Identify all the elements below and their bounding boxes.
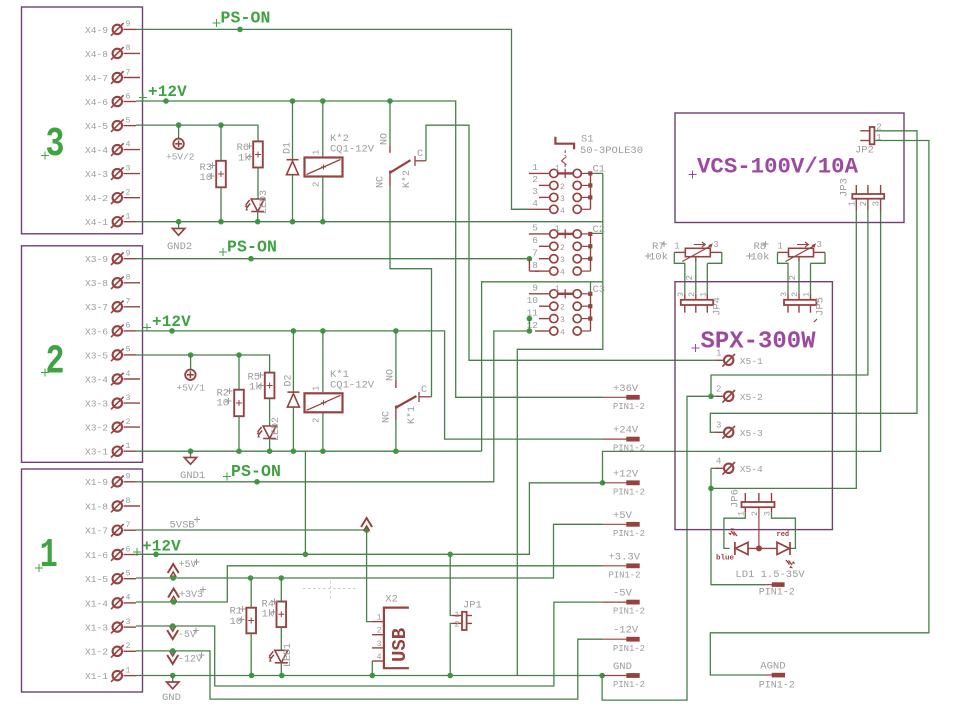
screw terminal X5-4 xyxy=(722,462,735,475)
wire net -12V X1-2 to -12V pin xyxy=(136,639,602,699)
cross R4 value xyxy=(271,609,277,615)
junction -12V arrow xyxy=(170,648,176,654)
junction K*2 pin1 xyxy=(320,98,326,104)
contact circle left S1 C1 row 2 xyxy=(550,181,558,189)
wire D1 bottom xyxy=(292,175,294,222)
wire JP2 pin2 to X5-3 xyxy=(710,131,917,433)
pin stub X3-9 xyxy=(124,258,137,260)
wire 5VSB to USB pin1 xyxy=(367,530,372,622)
contact circle right S1 C1 row 4 xyxy=(573,205,581,213)
svg-text:2: 2 xyxy=(126,642,131,651)
svg-text:+3.3V: +3.3V xyxy=(609,551,641,563)
stub right S1 C1 row 1 xyxy=(582,172,589,174)
junction R3 top xyxy=(218,122,224,128)
svg-text:2: 2 xyxy=(560,244,565,253)
svg-text:3: 3 xyxy=(560,256,565,265)
switch contact arm K*1 xyxy=(395,396,417,409)
ground GND2 xyxy=(172,229,184,236)
svg-text:GND: GND xyxy=(162,692,181,704)
wire R2 top riser xyxy=(238,355,240,390)
svg-text:JP5: JP5 xyxy=(815,297,827,316)
jumper JP1 xyxy=(462,612,467,630)
origin cross SPX xyxy=(692,344,700,352)
svg-text:PIN1-2: PIN1-2 xyxy=(759,588,795,599)
svg-text:PS-ON: PS-ON xyxy=(231,462,281,481)
contact circle right S1 C2 row 7 xyxy=(573,255,581,263)
stub right S1 C3 row 9 xyxy=(582,293,589,295)
screw terminal X4-6 xyxy=(111,95,124,108)
svg-text:2: 2 xyxy=(859,201,869,206)
svg-text:1k: 1k xyxy=(262,609,275,621)
svg-text:JP6: JP6 xyxy=(730,489,742,508)
pin JP3 leg 3 down xyxy=(880,199,882,210)
pad S1 C1 row 3 xyxy=(588,195,592,199)
junction USB pin4 on GND xyxy=(370,673,376,679)
svg-text:PIN1-2: PIN1-2 xyxy=(613,444,645,454)
svg-text:S1: S1 xyxy=(581,134,594,146)
wire JP6 pin3 to LED red xyxy=(772,512,796,548)
origin cross PS-ON1 xyxy=(223,473,231,481)
svg-text:PIN1-2: PIN1-2 xyxy=(613,529,645,539)
pin K*1 C tick xyxy=(418,392,420,402)
screw terminal X3-3 xyxy=(111,397,124,410)
cross R5 xyxy=(258,372,264,378)
contact circle right S1 C3 row 12 xyxy=(573,327,581,335)
contact circle right S1 C3 row 9 xyxy=(573,290,581,298)
cross R2 value xyxy=(226,398,232,404)
wire net X3-5 to R5 xyxy=(136,355,270,372)
pin stub S1 C2 row 8 xyxy=(535,270,549,272)
contact circle right S1 C1 row 3 xyxy=(573,193,581,201)
svg-text:9: 9 xyxy=(532,283,538,294)
pin stub X1-4 xyxy=(124,602,137,604)
trimmer R8 xyxy=(786,243,817,261)
trimmer arrow top R7 xyxy=(694,242,706,247)
svg-text:C3: C3 xyxy=(593,284,606,296)
pin JP5 1 leg down xyxy=(810,305,812,313)
svg-text:8: 8 xyxy=(126,497,131,506)
connector X3 frame xyxy=(22,246,143,462)
svg-text:PIN1-2: PIN1-2 xyxy=(609,570,641,580)
resistor R5 xyxy=(265,373,275,399)
svg-text:X3-6: X3-6 xyxy=(85,326,108,337)
stub right S1 C3 row 12 xyxy=(582,330,591,332)
svg-text:50-3POLE30: 50-3POLE30 xyxy=(580,145,643,157)
svg-text:8: 8 xyxy=(126,274,131,283)
contact circle left S1 C3 row 9 xyxy=(550,290,558,298)
switch S1 actuator symbol xyxy=(555,137,574,150)
svg-text:X4-1: X4-1 xyxy=(85,217,108,228)
pin JP6 1 leg down xyxy=(744,507,746,512)
stub right S1 C2 row 6 xyxy=(582,245,589,247)
pad S1 C2 row 7 xyxy=(588,257,592,261)
origin cross digit 3 xyxy=(41,152,49,160)
cross R7 xyxy=(661,241,667,247)
svg-text:1: 1 xyxy=(454,610,459,620)
pin stub USB pin 1 xyxy=(372,621,384,623)
common bus C2 xyxy=(590,234,592,271)
screw terminal X5-2 xyxy=(722,390,735,403)
svg-text:2: 2 xyxy=(687,292,697,297)
wire GND2 bus down to GND xyxy=(517,173,603,675)
svg-text:6: 6 xyxy=(126,545,131,554)
junction +12V1 label xyxy=(153,552,159,558)
pin JP3 leg 3 up xyxy=(880,185,882,194)
wire R8 pin3 down xyxy=(810,263,812,293)
screw terminal X4-1 xyxy=(111,215,124,228)
svg-text:1: 1 xyxy=(876,133,881,143)
svg-text:2: 2 xyxy=(788,275,798,280)
svg-text:X3-3: X3-3 xyxy=(85,399,108,410)
wire GND to X5-2 xyxy=(602,396,711,700)
svg-text:X1-2: X1-2 xyxy=(85,647,108,658)
pin JP6 3 leg up xyxy=(771,493,773,502)
svg-text:-12V: -12V xyxy=(178,655,202,666)
svg-text:X5-2: X5-2 xyxy=(740,392,763,403)
wire X5-2 pin link xyxy=(711,395,715,397)
pad S1 C1 row 2 xyxy=(588,183,592,187)
junction 5VSB USB xyxy=(364,527,370,533)
svg-text:1: 1 xyxy=(312,386,322,391)
pin stub X4-8 xyxy=(124,52,141,54)
supply pin +5V xyxy=(602,522,639,527)
pad S1 C3 row 11 xyxy=(588,317,592,321)
wire net +5V X1-5 to +5V pin xyxy=(136,524,602,578)
wire JP3 pin1 to X5-4 xyxy=(711,210,856,488)
supply pin GND xyxy=(602,673,639,678)
pin stub USB pin 4 xyxy=(372,660,384,662)
pin JP2 pin1 stub xyxy=(860,140,869,142)
LD1 anode junction xyxy=(756,545,762,551)
junction D1 bottom xyxy=(290,219,296,225)
pin JP3 leg 1 down xyxy=(855,199,857,210)
svg-text:CQ1-12V: CQ1-12V xyxy=(330,380,375,392)
junction K*2 pin2 xyxy=(320,219,326,225)
wire JP3 pin3 stub down xyxy=(880,210,882,214)
svg-text:5: 5 xyxy=(126,116,131,125)
screw terminal X4-5 xyxy=(111,119,124,132)
pin R7 wiper stub xyxy=(695,257,697,261)
pin stub X3-5 xyxy=(124,354,137,356)
pin stub X4-4 xyxy=(124,149,141,151)
supply arrow 5VSB xyxy=(361,518,372,531)
wire net PS-ON1 X1-9 to S1 row12 xyxy=(136,331,529,482)
screw terminal X1-7 xyxy=(111,524,124,537)
pin K*2 C tick xyxy=(414,156,416,166)
svg-text:VCS-100V/10A: VCS-100V/10A xyxy=(697,154,858,180)
connector X4 frame xyxy=(22,7,143,234)
origin cross PS-ON3 xyxy=(213,19,221,27)
stub row8 link xyxy=(529,270,539,272)
svg-text:8: 8 xyxy=(532,260,538,271)
pin R8 wiper stub xyxy=(798,257,800,261)
pin stub X5-1 xyxy=(715,359,723,361)
wire +5V/2 riser xyxy=(178,125,180,138)
svg-text:4: 4 xyxy=(560,329,565,338)
junction +12V3 label xyxy=(163,98,169,104)
svg-text:4: 4 xyxy=(126,140,131,149)
pin R7 3 stub xyxy=(710,251,722,253)
cross -5V xyxy=(193,628,199,634)
junction R3 bottom xyxy=(218,219,224,225)
svg-text:PIN1-2: PIN1-2 xyxy=(613,644,645,654)
pin JP4 2 leg down xyxy=(695,305,697,313)
wire R7 pin3 down xyxy=(706,263,708,293)
svg-text:1k: 1k xyxy=(238,153,251,165)
pin JP6 2 leg down xyxy=(758,507,760,548)
pin stub USB pin 2 xyxy=(372,634,384,636)
wire R8 wiper to JP5 xyxy=(798,261,800,293)
svg-text:3: 3 xyxy=(126,164,131,173)
cross R3 xyxy=(210,163,216,169)
stub right S1 C1 row 4 xyxy=(582,208,591,210)
junction LED2 bottom on GND1 xyxy=(267,448,273,454)
svg-text:C2: C2 xyxy=(593,224,606,236)
svg-text:GND1: GND1 xyxy=(180,470,205,482)
pin stub X1-6 xyxy=(124,554,137,556)
svg-text:+12V: +12V xyxy=(142,538,181,556)
svg-text:K*1: K*1 xyxy=(406,406,418,424)
contact circle left S1 C1 row 3 xyxy=(550,193,558,201)
junction GND symbol on GND xyxy=(170,673,176,679)
junction S1 row12 PS-ON1 xyxy=(527,328,533,334)
supply pin +12V xyxy=(602,480,639,485)
svg-text:PS-ON: PS-ON xyxy=(227,238,277,257)
svg-text:1: 1 xyxy=(778,242,783,252)
pin stub S1 C3 row 9 xyxy=(529,293,549,295)
pad S1 C2 row 6 xyxy=(588,244,592,248)
pin K*2 C stub xyxy=(415,160,426,162)
svg-text:LED3: LED3 xyxy=(259,190,270,214)
svg-text:X1-4: X1-4 xyxy=(85,598,108,609)
svg-text:X4-8: X4-8 xyxy=(85,49,108,60)
wire net PS-ON3 X4-9 to S1 row4 xyxy=(136,29,529,209)
wire LED3 bottom xyxy=(257,212,259,222)
svg-text:2: 2 xyxy=(790,292,800,297)
contact circle left S1 C1 row 4 xyxy=(550,205,558,213)
connector X1 frame xyxy=(22,469,143,692)
wire R8 pin1 to JP5 xyxy=(778,252,789,293)
wire K*2 NO riser xyxy=(389,101,391,146)
wire GND2 stub xyxy=(178,222,180,228)
wire JP2 pin1 to AGND xyxy=(710,141,929,676)
svg-text:1: 1 xyxy=(555,285,560,294)
pin JP4 1 leg up xyxy=(706,293,708,300)
pin stub X4-2 xyxy=(124,197,141,199)
wire USB pin4 to GND xyxy=(371,661,373,676)
pin stub S1 C3 row 11 xyxy=(539,318,549,320)
contact circle left S1 C3 row 10 xyxy=(550,302,558,310)
svg-text:1: 1 xyxy=(126,442,131,451)
contact circle right S1 C3 row 11 xyxy=(573,315,581,323)
supply arrow -5V xyxy=(167,626,178,639)
cross +3V3 xyxy=(200,587,206,593)
contact circle left S1 C2 row 7 xyxy=(550,255,558,263)
screw terminal X3-9 xyxy=(111,252,124,265)
svg-text:2: 2 xyxy=(126,418,131,427)
svg-text:AGND: AGND xyxy=(760,661,785,673)
pin stub X1-9 xyxy=(124,481,137,483)
pin stub X5-3 xyxy=(715,431,723,433)
junction D2 bottom on GND1 xyxy=(291,448,297,454)
svg-text:X3-7: X3-7 xyxy=(85,302,108,313)
svg-text:3: 3 xyxy=(560,316,565,325)
wire R4 top xyxy=(280,578,282,602)
svg-text:-5V: -5V xyxy=(613,588,633,600)
wire GND1 to +12V1 net xyxy=(304,451,306,554)
svg-text:1: 1 xyxy=(126,213,131,222)
pin stub X4-1 xyxy=(124,221,137,223)
pin stub X3-4 xyxy=(124,378,141,380)
pin R8 1 stub xyxy=(778,251,789,253)
wire net +12V2 X3-6 to +24V pin xyxy=(136,331,602,439)
cross R3 value xyxy=(209,173,215,179)
origin cross +12V2 xyxy=(143,324,151,332)
junction PS-ON1 xyxy=(254,479,260,485)
stub right S1 C1 row 3 xyxy=(582,196,589,198)
svg-text:3: 3 xyxy=(779,292,789,297)
supply pin -12V xyxy=(602,637,639,642)
wire JP6 pin1 to LED blue xyxy=(724,512,745,548)
contact circle right S1 C2 row 8 xyxy=(573,267,581,275)
svg-text:4: 4 xyxy=(560,269,565,278)
svg-text:4: 4 xyxy=(560,207,565,216)
svg-text:10k: 10k xyxy=(649,252,668,264)
svg-text:10: 10 xyxy=(200,172,213,184)
pin R8 3 stub xyxy=(814,251,826,253)
common bus C1 xyxy=(590,173,592,209)
screw terminal X3-2 xyxy=(111,421,124,434)
svg-text:NC: NC xyxy=(376,176,387,188)
svg-text:K*2: K*2 xyxy=(401,170,413,188)
svg-text:PS-ON: PS-ON xyxy=(221,9,271,28)
screw terminal X1-6 xyxy=(111,548,124,561)
wire R8 pin3 corner xyxy=(811,252,826,263)
cross R7 value xyxy=(645,253,651,259)
pin JP4 1 leg down xyxy=(706,305,708,313)
svg-text:-12V: -12V xyxy=(613,625,639,637)
svg-text:7: 7 xyxy=(532,248,538,259)
wire R7 pin3 corner xyxy=(707,252,722,263)
pin stub S1 C3 row 10 xyxy=(539,305,549,307)
pin JP1 pin1 stub xyxy=(452,615,462,617)
relay coil K*1 xyxy=(305,393,343,412)
pin stub X5-4 xyxy=(715,467,723,469)
screw terminal X4-7 xyxy=(111,71,124,84)
resistor R4 xyxy=(277,602,287,628)
pin JP2 pin2 stub xyxy=(860,130,869,132)
svg-text:2: 2 xyxy=(560,183,565,192)
svg-text:1: 1 xyxy=(555,164,560,173)
diode D2 xyxy=(287,392,299,407)
svg-text:X4-5: X4-5 xyxy=(85,121,108,132)
svg-text:1: 1 xyxy=(698,292,708,297)
junction R2 top xyxy=(236,352,242,358)
svg-text:PIN1-2: PIN1-2 xyxy=(613,402,645,412)
wire C1 common stub xyxy=(593,172,603,174)
wire D2 bottom xyxy=(292,408,294,452)
svg-text:2: 2 xyxy=(312,418,322,423)
junction GND2 symbol xyxy=(176,219,182,225)
resistor R2 xyxy=(234,390,244,417)
contact circle left S1 C3 row 11 xyxy=(550,315,558,323)
stub right S1 C1 row 2 xyxy=(582,184,589,186)
svg-text:JP4: JP4 xyxy=(711,297,723,316)
wire net +12V1 X1-6 to +12V pin xyxy=(136,483,602,555)
supply arrow -12V xyxy=(167,651,178,664)
pin stub X4-5 xyxy=(124,125,137,127)
pad S1 C3 row 9 xyxy=(588,292,592,296)
pin stub X4-7 xyxy=(124,77,141,79)
pin stub X1-2 xyxy=(124,650,137,652)
svg-text:X5-3: X5-3 xyxy=(740,428,763,439)
pin stub X4-9 xyxy=(124,28,137,30)
svg-text:3: 3 xyxy=(713,240,718,250)
junction LED3 bottom xyxy=(255,219,261,225)
svg-text:X1-8: X1-8 xyxy=(85,501,108,512)
svg-text:+36V: +36V xyxy=(613,383,639,395)
junction R1 bottom on GND xyxy=(249,673,255,679)
pin stub USB pin 3 xyxy=(372,647,384,649)
svg-text:+24V: +24V xyxy=(613,425,639,437)
svg-text:red: red xyxy=(777,531,790,539)
wire K*2 C to X5-1 xyxy=(426,125,715,360)
pin stub X1-7 xyxy=(124,529,137,531)
wire +12V1 to JP3 pin3 xyxy=(603,210,881,483)
screw terminal X1-9 xyxy=(111,476,124,489)
LED LED1 xyxy=(268,650,288,663)
wire net 5VSB X1-7 xyxy=(136,529,367,531)
screw terminal X4-4 xyxy=(111,143,124,156)
svg-text:1: 1 xyxy=(802,292,812,297)
pin stub X4-3 xyxy=(124,173,141,175)
svg-text:X5-4: X5-4 xyxy=(740,464,763,475)
svg-text:10: 10 xyxy=(217,398,230,410)
svg-text:2: 2 xyxy=(716,384,721,394)
svg-text:+5V/1: +5V/1 xyxy=(177,383,206,394)
screw terminal X3-8 xyxy=(111,277,124,290)
screw terminal X1-4 xyxy=(111,597,124,610)
svg-text:3: 3 xyxy=(126,618,131,627)
origin cross VCS xyxy=(689,171,697,179)
screw terminal X5-3 xyxy=(722,426,735,439)
wire K*2 pin2 xyxy=(322,177,324,222)
junction K*2 NO xyxy=(387,98,393,104)
junction +12V pin bar xyxy=(600,480,606,486)
svg-text:X4-4: X4-4 xyxy=(85,145,108,156)
LD1 pin bar xyxy=(765,582,785,587)
svg-text:5: 5 xyxy=(126,346,131,355)
ground GND xyxy=(167,682,179,689)
header JP5 xyxy=(784,300,816,305)
origin cross +12V3 xyxy=(139,94,147,102)
svg-text:6: 6 xyxy=(126,322,131,331)
svg-text:NO: NO xyxy=(386,369,397,381)
bicolor LED LD1 red half xyxy=(777,542,796,568)
pin JP1 pin2 leg xyxy=(467,622,472,624)
svg-text:X2: X2 xyxy=(385,594,398,606)
pin stub S1 C2 row 7 xyxy=(539,258,549,260)
screw terminal X5-1 xyxy=(722,354,735,367)
pin stub X4-6 xyxy=(124,101,137,103)
svg-text:2: 2 xyxy=(377,627,382,636)
junction K*1 pin2 on GND1 xyxy=(320,448,326,454)
svg-text:+3V3: +3V3 xyxy=(179,590,203,601)
contact circle left S1 C3 row 12 xyxy=(550,327,558,335)
junction D1 top xyxy=(290,98,296,104)
cross R1 xyxy=(240,606,246,612)
cross R1 value xyxy=(239,617,245,623)
